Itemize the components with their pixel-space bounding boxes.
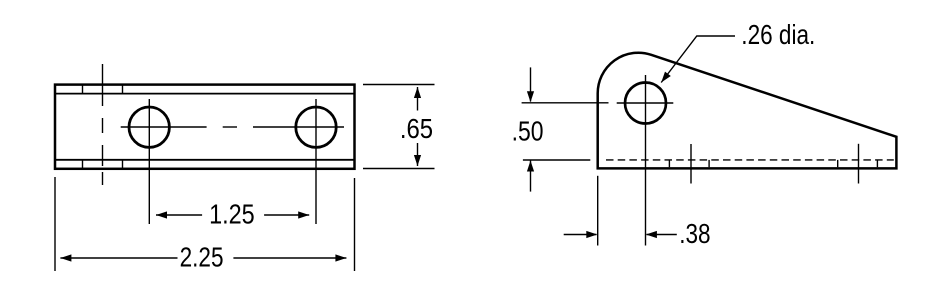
base hole centerline tick 2 <box>858 144 860 184</box>
hidden inner surface dashed line <box>606 159 894 161</box>
dim 2.25 line left segment <box>60 257 177 259</box>
svg-text:.26 dia.: .26 dia. <box>741 19 815 50</box>
dim .65 arrow down <box>414 155 421 166</box>
hidden hole edge tick B <box>708 160 710 167</box>
horizontal centerline through holes <box>121 126 344 128</box>
dim .38 right arrow line <box>647 234 677 236</box>
dim .65 line bottom segment <box>417 143 419 166</box>
dim 1.25 arrow right <box>298 211 309 218</box>
inner top edge line <box>55 93 355 95</box>
dim 2.25 extension right <box>354 178 356 271</box>
hole H1 vertical centerline / extension <box>148 99 150 224</box>
inner bottom edge line <box>55 159 355 161</box>
hidden hole-edge tick bottom-right <box>122 160 124 168</box>
dim 2.25 extension left <box>54 177 56 271</box>
side view profile outline <box>598 53 897 169</box>
dim .38 arrow left-pointing <box>646 231 657 238</box>
dim .38 left arrow line <box>564 234 597 236</box>
dim .65 extension bottom <box>363 168 435 170</box>
tab hole horizontal centerline <box>617 102 674 104</box>
dim .50 extension bottom <box>523 159 590 161</box>
vertical centerline of tab hole <box>102 64 104 185</box>
dim 2.25 arrow right <box>335 254 346 261</box>
hole H2 <box>296 107 336 147</box>
dim .38 arrow right-pointing <box>586 231 597 238</box>
dim 1.25 arrow left <box>156 211 167 218</box>
svg-text:.65: .65 <box>400 113 433 144</box>
hidden hole-edge tick bottom-left <box>82 160 84 168</box>
dim .50 line above <box>530 67 532 101</box>
dim .65 line top segment <box>417 87 419 111</box>
hidden hole edge tick A <box>668 160 670 167</box>
tab hole vertical centerline / extension <box>645 75 647 246</box>
dim .65 arrow up <box>414 87 421 98</box>
dim .38 extension left <box>597 176 599 246</box>
hidden hole edge tick C <box>837 160 839 167</box>
dim .50 line below <box>530 161 532 192</box>
hole H1 <box>129 107 169 147</box>
dim .50 arrow up <box>527 161 534 172</box>
leader arrowhead <box>661 72 671 83</box>
base hole centerline tick 1 <box>690 144 692 184</box>
dim .65 extension top <box>363 84 435 86</box>
hidden hole edge tick D <box>876 160 878 167</box>
hole H2 vertical centerline / extension <box>315 99 317 224</box>
dim .50 extension top <box>522 102 609 104</box>
dim 1.25 line left segment <box>156 214 202 216</box>
svg-text:2.25: 2.25 <box>180 242 224 273</box>
hidden hole-edge tick top-left <box>82 85 84 94</box>
svg-text:.50: .50 <box>512 116 544 147</box>
front view outline <box>55 85 355 169</box>
dim 1.25 line right segment <box>264 214 309 216</box>
dim 2.25 arrow left <box>60 254 71 261</box>
hidden hole-edge tick top-right <box>122 85 124 94</box>
svg-text:1.25: 1.25 <box>209 199 255 230</box>
dim .50 arrow down <box>527 91 534 102</box>
tab hole <box>625 83 666 124</box>
dim 2.25 line right segment <box>233 257 346 259</box>
svg-text:.38: .38 <box>679 218 710 249</box>
leader line for .26 dia. <box>661 36 735 83</box>
